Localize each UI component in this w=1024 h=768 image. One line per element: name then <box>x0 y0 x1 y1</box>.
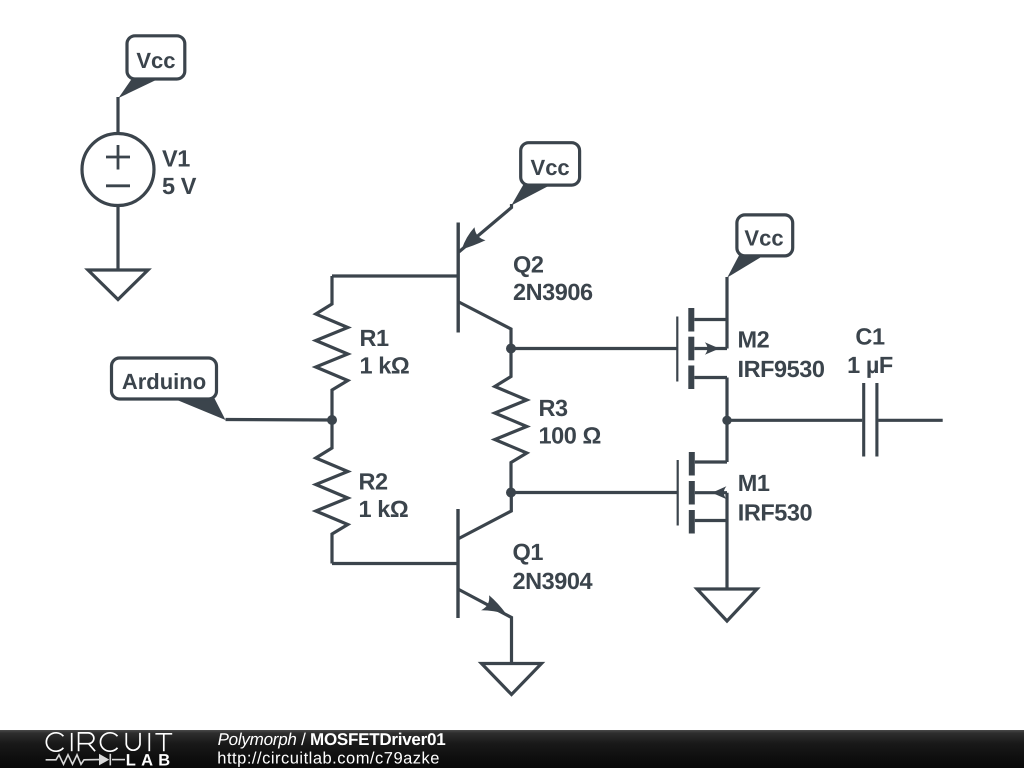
svg-text:Q2: Q2 <box>513 252 544 278</box>
svg-text:5 V: 5 V <box>162 173 197 199</box>
svg-text:Vcc: Vcc <box>744 226 783 251</box>
svg-text:M2: M2 <box>738 327 770 353</box>
svg-text:LAB: LAB <box>126 752 176 768</box>
svg-text:Polymorph / MOSFETDriver01: Polymorph / MOSFETDriver01 <box>218 730 446 749</box>
svg-text:Vcc: Vcc <box>136 48 175 73</box>
svg-text:C1: C1 <box>855 324 885 350</box>
svg-text:Vcc: Vcc <box>531 155 570 180</box>
svg-text:Arduino: Arduino <box>122 369 206 394</box>
svg-text:IRF9530: IRF9530 <box>738 356 825 382</box>
svg-text:100 Ω: 100 Ω <box>539 423 601 449</box>
svg-text:V1: V1 <box>162 146 190 172</box>
svg-text:1 kΩ: 1 kΩ <box>359 496 409 522</box>
svg-text:R1: R1 <box>360 325 390 351</box>
svg-text:1 kΩ: 1 kΩ <box>360 353 410 379</box>
svg-text:http://circuitlab.com/c79azke: http://circuitlab.com/c79azke <box>217 750 440 768</box>
svg-text:IRF530: IRF530 <box>738 500 813 526</box>
svg-text:2N3906: 2N3906 <box>513 279 593 305</box>
svg-text:1 µF: 1 µF <box>847 352 893 378</box>
svg-text:R3: R3 <box>539 395 569 421</box>
svg-text:Q1: Q1 <box>513 539 544 565</box>
svg-text:R2: R2 <box>359 469 389 495</box>
svg-text:2N3904: 2N3904 <box>513 568 593 594</box>
svg-text:M1: M1 <box>738 470 770 496</box>
